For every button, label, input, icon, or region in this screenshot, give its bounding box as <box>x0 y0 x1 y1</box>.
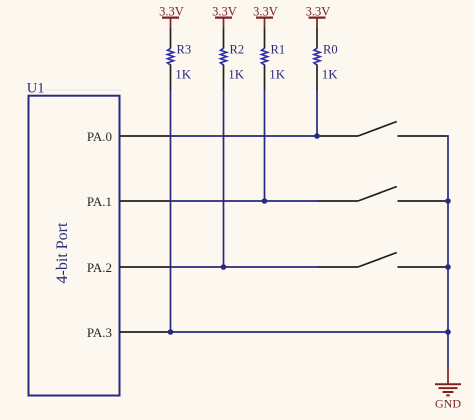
wire R1 column down to PA.1 <box>264 90 266 201</box>
wire PA.1 horizontal <box>171 200 318 202</box>
svg-text:1K: 1K <box>175 67 192 82</box>
ground GND <box>435 367 461 411</box>
svg-text:PA.2: PA.2 <box>87 260 112 275</box>
resistor R0 <box>314 28 338 90</box>
U1 part name "4-bit Port" <box>54 222 71 283</box>
svg-text:U1: U1 <box>27 81 45 97</box>
power 3.3V (over R1) <box>253 5 278 28</box>
svg-text:R2: R2 <box>230 43 245 57</box>
resistor R1 <box>261 28 285 90</box>
svg-text:1K: 1K <box>322 67 339 82</box>
junction dot R0/PA.0 <box>314 133 320 139</box>
pin PA.0 <box>120 135 171 137</box>
junction dot R1/PA.1 <box>262 198 268 204</box>
switch S1 on PA.0 <box>317 122 446 137</box>
power 3.3V (over R2) <box>212 5 237 28</box>
switch S3 on PA.2 <box>317 253 446 268</box>
junction dot bus/S3 <box>445 264 451 270</box>
U1 designator label <box>27 81 45 97</box>
svg-text:R0: R0 <box>323 43 338 57</box>
svg-text:1K: 1K <box>269 67 286 82</box>
wire R0 column down to PA.0 <box>316 90 318 136</box>
switch S2 on PA.1 <box>317 187 446 202</box>
wire PA.0 horizontal <box>171 135 318 137</box>
junction dot R2/PA.2 <box>221 264 227 270</box>
svg-text:GND: GND <box>435 397 461 411</box>
svg-text:PA.0: PA.0 <box>87 129 112 144</box>
pin PA.3 <box>120 331 171 333</box>
junction dot bus/PA.3 <box>445 329 451 335</box>
resistor R2 <box>220 28 244 90</box>
svg-text:R1: R1 <box>271 43 286 57</box>
junction dot bus/S2 <box>445 198 451 204</box>
wire right bus vertical <box>446 136 448 367</box>
faint guide line near U1 <box>44 89 122 91</box>
IC U1 (4-bit Port) body <box>29 96 120 396</box>
svg-text:1K: 1K <box>228 67 245 82</box>
svg-text:PA.3: PA.3 <box>87 325 112 340</box>
svg-text:PA.1: PA.1 <box>87 194 112 209</box>
wire PA.2 horizontal <box>171 266 318 268</box>
power 3.3V (over R3) <box>159 5 184 28</box>
pin PA.2 <box>120 266 171 268</box>
wire R2 column down to PA.2 <box>223 90 225 267</box>
wire R3 column down to PA.3 <box>170 90 172 332</box>
pin PA.1 <box>120 200 171 202</box>
junction dot R3/PA.3 <box>168 329 174 335</box>
svg-text:R3: R3 <box>177 43 192 57</box>
power 3.3V (over R0) <box>306 5 331 28</box>
svg-text:4-bit Port: 4-bit Port <box>54 222 71 283</box>
resistor R3 <box>167 28 191 90</box>
wire PA.3 horizontal <box>171 331 449 333</box>
